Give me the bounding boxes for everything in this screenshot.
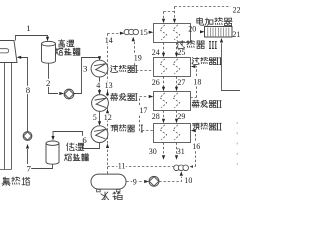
label 水箱 <box>101 192 123 202</box>
label 过热器 I <box>110 65 137 72</box>
wire node 3 (P1 to superheater I) <box>74 58 100 94</box>
arrow salt into preheater I <box>98 121 101 126</box>
electric heater <box>205 27 233 38</box>
svg-text:24: 24 <box>152 48 160 57</box>
svg-text:26: 26 <box>152 78 160 87</box>
superheater III box <box>154 24 191 43</box>
svg-text:16: 16 <box>192 142 200 151</box>
salt pump P2 <box>23 132 32 141</box>
arrow steam 15 into superheater III <box>149 31 154 34</box>
arrow into feed pump P3 <box>144 180 149 183</box>
svg-text:12: 12 <box>104 113 112 122</box>
node 4 label <box>96 81 101 90</box>
arrow steam 19 into mixer M1 <box>132 37 135 42</box>
preheater I (HX U3) <box>91 126 108 143</box>
arrow return into mixer M2 <box>190 165 193 168</box>
wire heating steam cascade 30/31 <box>162 143 178 160</box>
svg-text:31: 31 <box>177 147 185 156</box>
superheater I (HX U1) <box>91 60 108 77</box>
node 15 label <box>140 28 148 37</box>
svg-text:29: 29 <box>177 112 185 121</box>
wire steam line I top corner to mixer M1 <box>108 33 120 35</box>
svg-text:4: 4 <box>96 81 100 90</box>
node 8 label <box>25 85 31 95</box>
water tank <box>91 174 126 192</box>
node 30 label <box>149 147 157 156</box>
wire node 19 (superheater II to mixer M1) <box>135 42 153 71</box>
wire node 6 (salt: preheater I to cold tank) <box>53 132 100 149</box>
wire node 17 (preheater II to evaporator II) <box>140 97 153 131</box>
cold molten salt tank <box>46 141 59 164</box>
node 6 label <box>82 135 88 145</box>
arrow steam up into preheater I <box>106 143 109 148</box>
node 19 label <box>133 54 142 63</box>
wire heating steam cascade 28/29 <box>162 111 178 124</box>
svg-text:15: 15 <box>140 28 148 37</box>
svg-text:17: 17 <box>139 106 147 115</box>
node 3 label <box>83 63 88 73</box>
wire node 9 (water tank to feed pump P3) <box>126 181 142 183</box>
svg-text:18: 18 <box>193 77 201 86</box>
svg-text:20: 20 <box>188 25 196 34</box>
label 过热器 III <box>177 40 217 48</box>
wire node 4 (salt: superheater I to evaporator I) <box>99 77 101 91</box>
evaporator II box <box>154 92 191 111</box>
preheater II box <box>154 124 191 143</box>
arrow salt into evaporator I <box>98 90 101 95</box>
svg-text:11: 11 <box>118 162 126 171</box>
wire heating steam cascade 26/27 <box>162 77 178 92</box>
node 9 label <box>132 177 137 186</box>
svg-text:22: 22 <box>233 6 240 15</box>
arrow salt into cold tank <box>51 136 54 141</box>
node 11 label <box>117 162 126 171</box>
arrow water 16 into preheater II <box>191 129 196 132</box>
node 22 label <box>233 6 241 15</box>
node 1 label <box>26 23 31 33</box>
node 2 label <box>45 78 50 88</box>
salt pump P1 <box>64 89 74 99</box>
label 蒸发器 II <box>192 100 221 107</box>
arrow into salt pump P2 <box>26 144 29 149</box>
wire node 16 (mixer M2 to preheater II) <box>190 131 195 167</box>
arrow 22b into superheater III <box>173 19 176 24</box>
node 7 label <box>26 163 32 173</box>
node 25 label <box>177 48 185 57</box>
arrow salt into receiver <box>17 56 22 59</box>
wire node 7 (cold tank to salt pump P2) <box>28 149 53 169</box>
wire node 2 (hot tank to salt pump P1) <box>49 63 59 93</box>
evaporator I (HX U2) <box>92 95 109 112</box>
svg-text:2: 2 <box>46 78 50 88</box>
node 27 label <box>177 78 185 87</box>
svg-text:28: 28 <box>152 112 160 121</box>
arrow steam 20 into electric heater <box>200 30 205 33</box>
svg-text:13: 13 <box>105 81 113 90</box>
wire node 8 (P2 up to receiver) <box>21 58 28 132</box>
wire node 22 (heater loop to superheater III) <box>164 7 231 20</box>
node 18 label <box>193 77 202 86</box>
solar receiver on collector tower <box>0 41 17 63</box>
node 26 label <box>152 78 160 87</box>
label 蒸发器 I <box>111 93 138 100</box>
svg-text:21: 21 <box>232 30 240 39</box>
arrow steam 18 into superheater II <box>191 65 196 68</box>
wire hot salt riser node 1 (receiver to hot tank) <box>16 36 48 41</box>
arrow steam up into heater bottom <box>220 38 223 43</box>
arrow steam 17 into evaporator II <box>149 95 154 98</box>
node 20 label <box>188 25 196 34</box>
arrow water 10 up into mixer M2 <box>180 171 183 176</box>
arrow steam 12 up <box>106 109 109 114</box>
arrow steam 13 up <box>106 91 109 96</box>
svg-text:19: 19 <box>134 54 142 63</box>
node 17 label <box>139 106 148 115</box>
wire node 5 (salt: evaporator I to preheater I) <box>99 111 101 121</box>
wire heating steam cascade 24/25 <box>162 43 178 58</box>
node 16 label <box>192 142 201 151</box>
label 预热器 I <box>111 125 143 132</box>
superheater II box <box>154 58 191 77</box>
wire node 18 (evaporator II to superheater II) <box>190 67 196 98</box>
svg-text:9: 9 <box>133 177 137 186</box>
label 预热器 II <box>192 123 221 130</box>
svg-text:7: 7 <box>27 163 32 173</box>
hot molten salt tank <box>42 41 56 63</box>
svg-text:27: 27 <box>177 78 185 87</box>
svg-text:25: 25 <box>177 48 185 57</box>
arrow salt into superheater I <box>98 56 101 61</box>
node 14 label steam <box>104 36 113 45</box>
arrow 22a into superheater III <box>162 19 165 24</box>
mixer M2 (feedwater junction) <box>174 165 189 171</box>
node 12 label steam <box>103 113 112 122</box>
label 电加热器 <box>197 18 232 26</box>
wire steam supply to heater (from right) <box>222 43 241 90</box>
svg-text:3: 3 <box>83 63 88 73</box>
wire node 11 feedwater (tank/preheater junction) <box>108 166 174 168</box>
label 熔盐罐 <box>55 48 80 55</box>
node 24 label <box>152 48 160 57</box>
arrow steam 14 into mixer M1 <box>120 32 125 35</box>
label 高温 <box>58 40 73 47</box>
node 21 label <box>232 30 240 39</box>
node 13 label steam <box>104 81 113 90</box>
svg-text:14: 14 <box>105 36 113 45</box>
svg-text:30: 30 <box>149 147 157 156</box>
arrow into hot tank <box>46 37 49 42</box>
svg-text:10: 10 <box>184 176 192 185</box>
node 29 label <box>177 112 185 121</box>
svg-text:1: 1 <box>26 23 30 33</box>
feed pump P3 <box>149 176 159 186</box>
svg-text:5: 5 <box>93 113 97 122</box>
svg-text:8: 8 <box>26 85 31 95</box>
collector tower legs <box>0 62 12 170</box>
label 集热塔 <box>2 177 30 186</box>
node 5 label <box>92 113 97 122</box>
label 熔盐罐 <box>64 154 88 161</box>
label 过热器 II <box>192 57 221 64</box>
wire node 10 (P3 to mixer M2) <box>159 177 181 182</box>
node 31 label <box>177 147 185 156</box>
node 10 label <box>184 176 192 185</box>
label 低温 <box>67 143 84 151</box>
wire steam line I vertical (node 11-12-13-14) <box>107 34 109 174</box>
arrow into salt pump P1 <box>59 92 64 95</box>
mixer M1 (steam junction) <box>124 29 138 34</box>
node 28 label <box>152 112 160 121</box>
wire right edge stub <box>236 122 238 172</box>
